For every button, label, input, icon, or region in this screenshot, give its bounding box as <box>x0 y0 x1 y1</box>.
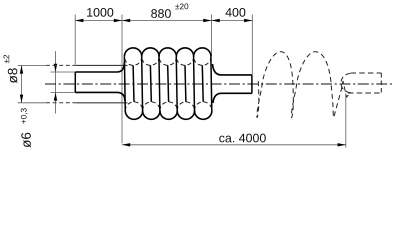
label dia8 <box>8 68 18 83</box>
extension line ca4000 right <box>345 93 347 147</box>
coil turn 4 top hidden arc <box>176 57 193 66</box>
arrow dia6 down <box>54 64 57 72</box>
coil turn 5 top arc <box>194 48 211 57</box>
coil front line 1 <box>132 65 135 102</box>
arrow dia8 down <box>20 95 23 103</box>
coil turn 1 bottom hidden arc <box>125 102 142 111</box>
centerline axis <box>45 83 393 85</box>
hose outer top edge <box>75 64 127 66</box>
dimension line dia6 <box>55 51 57 114</box>
label dia8 tolerance +-2 <box>3 55 9 63</box>
coil turn 5 bottom arc <box>194 111 211 120</box>
coil front line 2 <box>149 65 152 102</box>
coil turn 2 top arc <box>142 48 159 57</box>
coil junction line 2 <box>141 57 144 111</box>
coil turn 5 top hidden arc <box>194 57 211 66</box>
right tube bottom edge <box>213 93 252 103</box>
coil front line 4 <box>184 65 187 102</box>
arrow 1000 right <box>114 19 122 22</box>
label dia6 tolerance +0,3 <box>21 108 28 123</box>
label ca 4000 <box>219 134 266 143</box>
arrow 400 right <box>244 19 252 22</box>
phantom tube left cap arc <box>341 74 351 93</box>
dimension line dia8 <box>21 65 23 102</box>
phantom tube bottom edge <box>348 92 381 94</box>
extension line left end of straight section <box>74 15 76 65</box>
stretched coil phantom <box>257 52 350 118</box>
extension line right tube end <box>251 15 253 75</box>
coil junction line 6 <box>210 57 213 111</box>
arrow 1000 left <box>75 19 83 22</box>
phantom tube top edge <box>351 72 382 74</box>
coil turn 1 bottom arc <box>125 111 142 120</box>
right tube end cap <box>251 75 253 93</box>
coil turn 3 bottom hidden arc <box>160 102 177 111</box>
coil turn 2 bottom hidden arc <box>143 102 160 111</box>
coil turn 3 top arc <box>159 48 176 57</box>
phantom tube right cap <box>380 73 382 93</box>
coil turn 2 bottom arc <box>143 111 160 120</box>
coil turn 3 top hidden arc <box>159 57 176 66</box>
arrow dia8 up <box>20 65 23 73</box>
coil front line 5 <box>201 65 204 102</box>
coil turn 1 top hidden arc <box>124 57 141 66</box>
arrow 400 left <box>212 19 220 22</box>
hose outer bottom edge <box>75 102 127 104</box>
dimension line top chain <box>75 20 252 22</box>
inner tube bottom edge <box>75 92 125 101</box>
label 880 <box>151 9 171 18</box>
label dia6 <box>21 133 31 148</box>
arrow ca4000 left <box>122 143 130 146</box>
coil turn 4 bottom arc <box>177 111 194 120</box>
coil turn 4 top arc <box>176 48 193 57</box>
extension line coil start / ca4000 left <box>121 15 123 144</box>
extension line dia8 bottom <box>18 102 46 104</box>
extension line dia6 bottom <box>51 91 76 93</box>
label 400 <box>225 8 245 17</box>
extension line dia8 top <box>18 64 46 66</box>
label 880 tolerance +-20 <box>175 3 188 9</box>
hose outer top edge dashed end <box>46 64 75 66</box>
coil turn 3 bottom arc <box>160 111 177 120</box>
inner tube left cap <box>74 72 76 92</box>
hose outer bottom edge dashed end <box>46 102 75 104</box>
coil front line 3 <box>167 65 170 102</box>
coil turn 1 top arc <box>124 48 141 57</box>
label 1000 <box>87 8 113 17</box>
coil junction line 1 <box>123 57 126 111</box>
arrow ca4000 right <box>338 143 346 146</box>
arrow dia6 up <box>54 92 57 100</box>
coil junction line 4 <box>175 57 178 111</box>
inner tube top edge <box>75 62 124 72</box>
coil turn 4 bottom hidden arc <box>177 102 194 111</box>
extension line dia6 top <box>51 71 76 73</box>
coil turn 5 bottom hidden arc <box>194 102 211 111</box>
dimension line ca 4000 <box>122 144 346 146</box>
coil junction line 5 <box>193 57 196 111</box>
extension line coil end <box>211 15 213 56</box>
coil junction line 3 <box>158 57 161 111</box>
right tube top edge <box>213 64 252 75</box>
arrow 880 right <box>203 19 211 22</box>
arrow 880 left <box>122 19 130 22</box>
coil turn 2 top hidden arc <box>142 57 159 66</box>
